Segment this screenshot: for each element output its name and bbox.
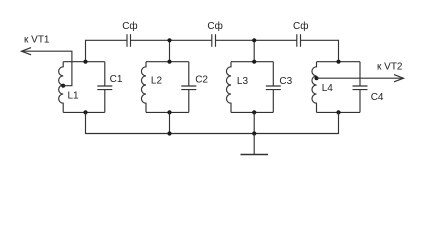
junction dot top bus tank 3 — [252, 38, 256, 42]
wire tank 2 top rail — [146, 61, 189, 63]
wire top bus segment between Сф2 and Сф3 — [216, 39, 297, 41]
wire drop tank 2 bottom to bus — [169, 112, 171, 133]
svg-text:L3: L3 — [237, 76, 249, 87]
wire tank 1 bottom rail — [63, 111, 105, 113]
svg-text:C4: C4 — [371, 92, 384, 103]
svg-text:L4: L4 — [322, 83, 334, 94]
junction dot tank 1 top node — [83, 60, 87, 64]
svg-text:к VT2: к VT2 — [377, 62, 403, 73]
wire to VT1 input tap on L1 — [22, 51, 72, 85]
junction dot tank 3 top node — [252, 60, 256, 64]
junction dot tank 3 bottom node — [252, 110, 256, 114]
capacitor C2 — [181, 62, 196, 113]
wire top bus left segment with corner down to tank 1 node — [86, 40, 128, 61]
wire tank 3 top rail — [231, 61, 273, 63]
inductor L3 — [226, 62, 231, 113]
svg-text:Сф: Сф — [207, 20, 222, 32]
wire tank 4 top rail — [317, 61, 361, 63]
capacitor C3 — [266, 62, 281, 113]
wire to VT2 output tap on L4 — [317, 77, 404, 79]
svg-text:Сф: Сф — [122, 20, 137, 32]
wire drop tank 3 bottom to bus — [253, 112, 255, 133]
wire drop from top bus to tank 3 — [253, 40, 255, 61]
arrowhead to VT1 — [22, 48, 32, 55]
ground — [241, 134, 269, 155]
svg-text:C2: C2 — [195, 75, 208, 86]
junction dot top bus tank 2 — [167, 38, 171, 42]
wire tank 1 top rail — [63, 61, 105, 63]
svg-text:C3: C3 — [279, 76, 292, 87]
wire tank 3 bottom rail — [231, 111, 273, 113]
wire drop from top bus to tank 2 — [169, 40, 171, 61]
inductor L1 — [59, 62, 64, 113]
junction dot tank 4 top node — [336, 60, 340, 64]
wire top bus right segment with corner down to tank 4 node — [301, 40, 339, 61]
capacitor Сф second coupling — [212, 34, 216, 47]
arrowhead to VT2 — [394, 75, 404, 82]
capacitor Сф first coupling — [127, 34, 131, 47]
wire tank 4 bottom rail — [317, 111, 361, 113]
svg-text:Сф: Сф — [293, 20, 308, 32]
capacitor Сф third coupling — [297, 34, 301, 47]
junction dot bottom bus tank 2 — [167, 131, 171, 135]
inductor L4 — [312, 62, 317, 113]
svg-text:C1: C1 — [110, 74, 123, 85]
wire tank 2 bottom rail — [146, 111, 189, 113]
junction dot tank 1 bottom node — [83, 110, 87, 114]
wire top bus segment between Сф1 and Сф2 — [131, 39, 212, 41]
tap dot on L1 — [61, 84, 65, 88]
capacitor C4 — [353, 62, 368, 113]
junction dot tank 2 top node — [167, 60, 171, 64]
junction dot bottom bus ground node — [252, 131, 256, 135]
junction dot tank 4 bottom node — [336, 110, 340, 114]
svg-text:к VT1: к VT1 — [24, 35, 50, 46]
wire bottom bus with corners up to tank 1 and tank 4 — [86, 112, 339, 133]
svg-text:L2: L2 — [151, 76, 163, 87]
inductor L2 — [141, 62, 146, 113]
junction dot tank 2 bottom node — [167, 110, 171, 114]
tap dot on L4 — [314, 76, 318, 80]
capacitor C1 — [97, 62, 112, 113]
svg-text:L1: L1 — [68, 91, 80, 102]
